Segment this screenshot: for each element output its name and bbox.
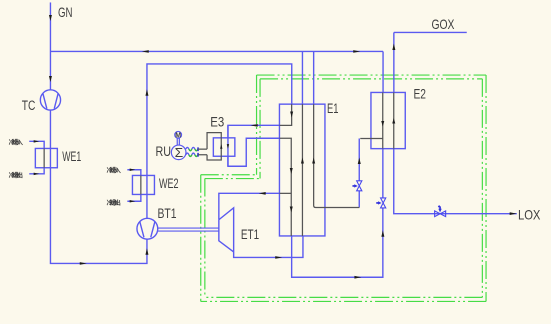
svg-text:BT1: BT1 xyxy=(157,206,176,222)
svg-text:冷却水出: 冷却水出 xyxy=(9,171,23,179)
svg-text:冷却水入: 冷却水入 xyxy=(107,166,122,174)
svg-text:GOX: GOX xyxy=(431,17,454,33)
svg-text:WE2: WE2 xyxy=(159,177,179,191)
svg-text:Σ: Σ xyxy=(175,146,184,160)
svg-text:GN: GN xyxy=(58,5,72,20)
svg-text:WE1: WE1 xyxy=(62,150,81,164)
svg-text:TC: TC xyxy=(22,98,36,114)
svg-text:E1: E1 xyxy=(327,101,339,116)
svg-text:RU: RU xyxy=(155,144,170,159)
svg-text:E2: E2 xyxy=(413,86,426,102)
svg-text:LOX: LOX xyxy=(518,207,541,222)
svg-text:M: M xyxy=(175,133,181,140)
svg-text:冷却水出: 冷却水出 xyxy=(107,199,121,207)
svg-text:冷却水入: 冷却水入 xyxy=(9,138,24,146)
svg-text:ET1: ET1 xyxy=(241,226,260,242)
svg-text:E3: E3 xyxy=(210,114,224,129)
